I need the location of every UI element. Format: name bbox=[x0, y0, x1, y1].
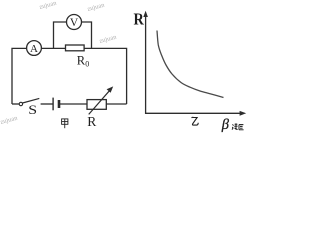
svg-text:V: V bbox=[70, 17, 79, 29]
svg-text:zujuan: zujuan bbox=[39, 0, 58, 11]
svg-text:zujuan: zujuan bbox=[87, 1, 106, 12]
svg-text:R: R bbox=[134, 10, 145, 28]
svg-text:0: 0 bbox=[85, 60, 89, 69]
svg-text:zujuan: zujuan bbox=[99, 33, 118, 44]
svg-text:A: A bbox=[30, 43, 38, 55]
svg-text:zujuan: zujuan bbox=[0, 114, 19, 125]
svg-text:β: β bbox=[221, 117, 230, 133]
svg-text:R: R bbox=[87, 114, 96, 129]
svg-text:S: S bbox=[28, 103, 37, 117]
